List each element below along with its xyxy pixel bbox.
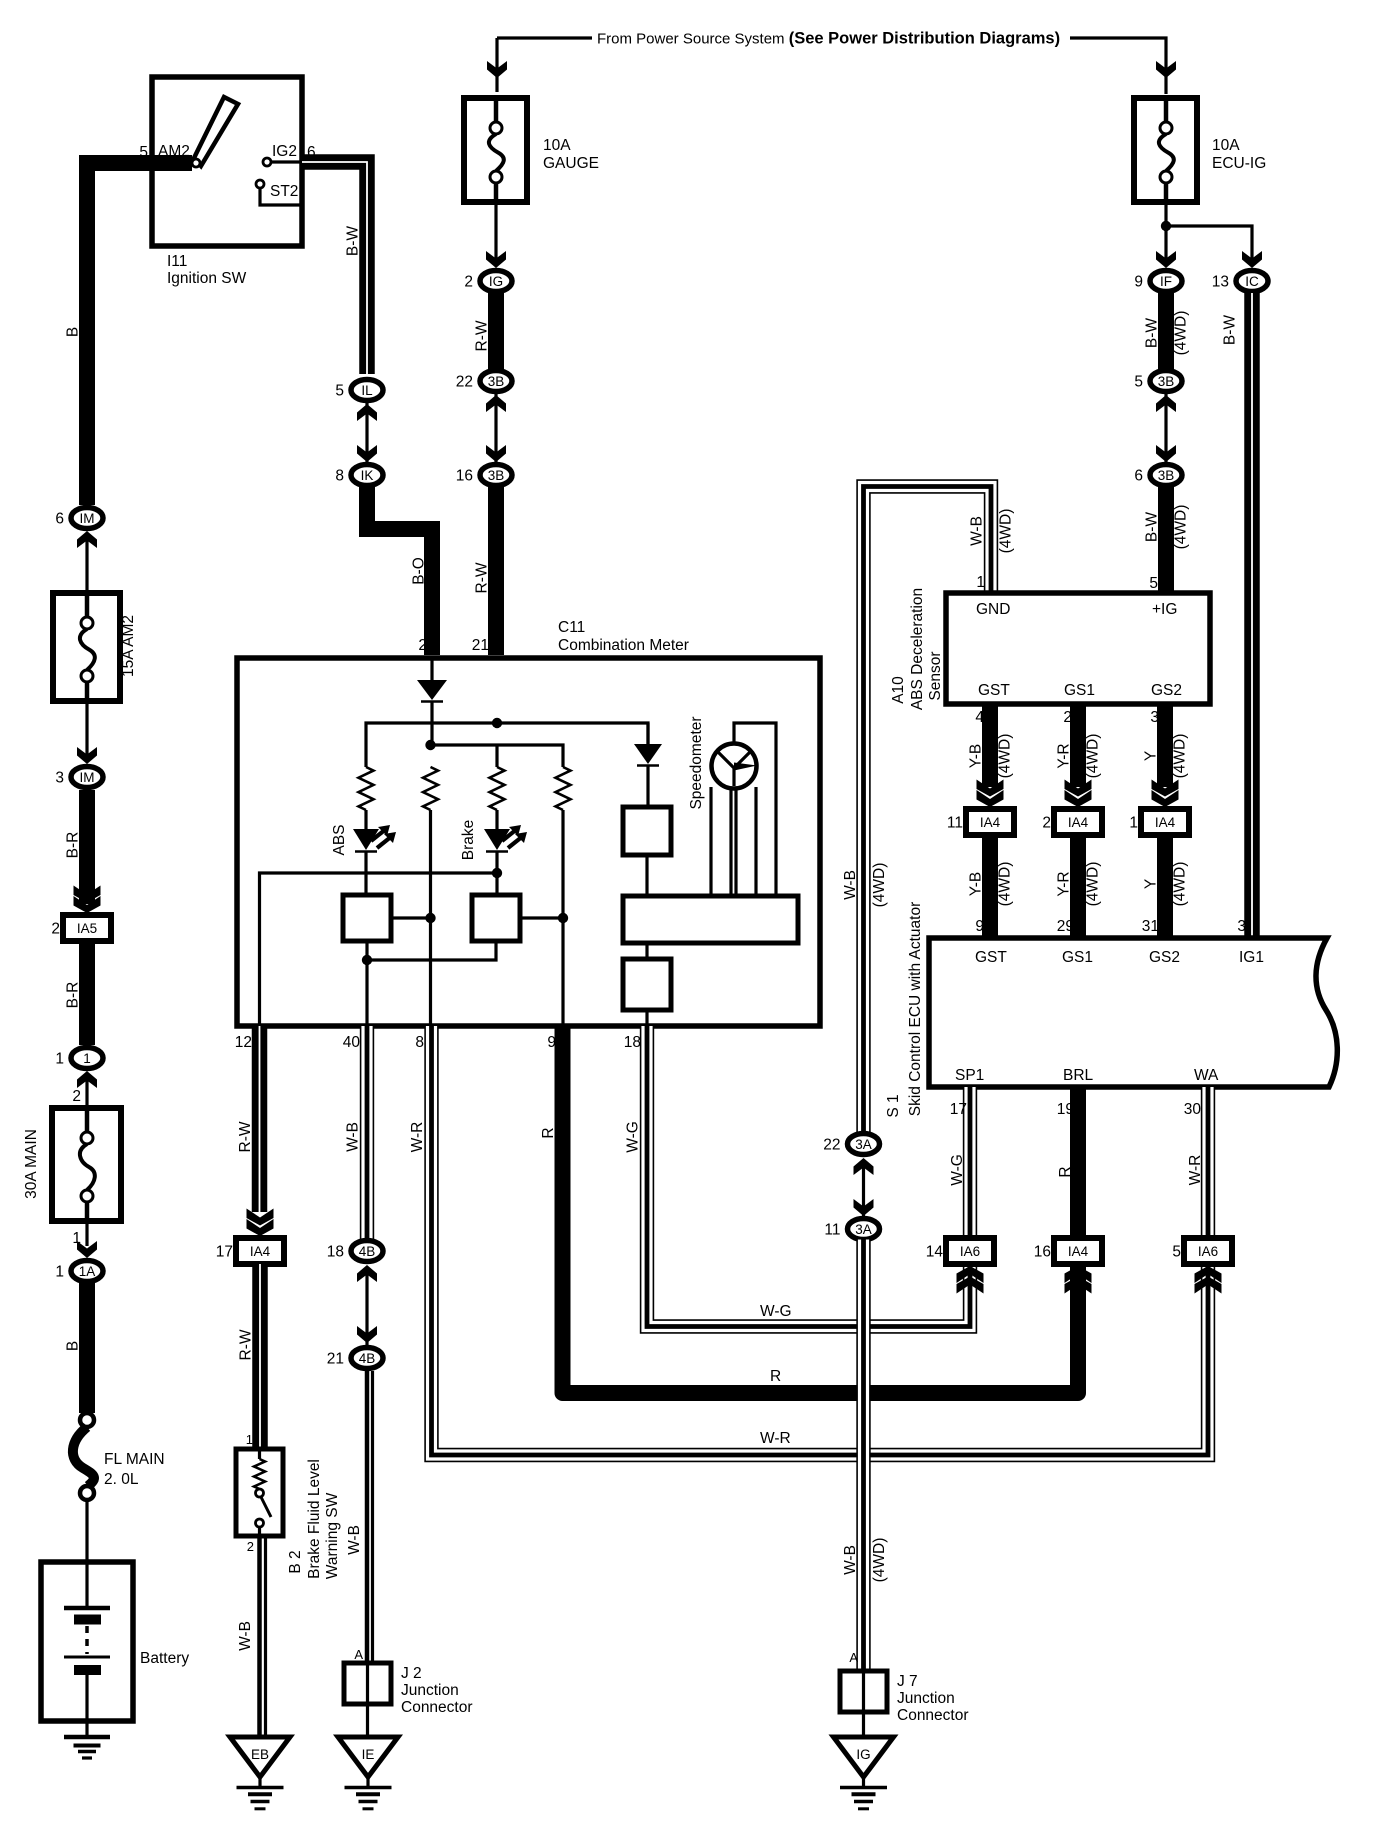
wire: 3A to 3A	[862, 1160, 865, 1216]
svg-text:B 2: B 2	[287, 1550, 304, 1573]
svg-text:BRL: BRL	[1063, 1067, 1094, 1084]
connector 11 3A	[848, 1219, 880, 1240]
svg-text:2: 2	[418, 637, 427, 654]
svg-text:W-B: W-B	[969, 516, 986, 546]
svg-text:4B: 4B	[359, 1244, 376, 1259]
svg-text:1A: 1A	[79, 1264, 96, 1279]
ignition switch I11 box	[152, 77, 302, 246]
resistor 4	[556, 767, 571, 810]
wire from pin 12 to brake lamp line	[260, 873, 498, 1026]
svg-text:2: 2	[247, 1539, 254, 1554]
svg-text:J 7: J 7	[897, 1673, 918, 1690]
wire: to 30A MAIN fuse	[85, 1074, 88, 1105]
wire Y-R (4WD): GS1 to IA4	[1070, 704, 1086, 787]
svg-text:B-O: B-O	[411, 557, 428, 585]
junction connector 5 IA6	[1184, 1238, 1232, 1264]
junction connector 14 IA6	[946, 1238, 994, 1264]
svg-text:3: 3	[1150, 709, 1159, 726]
battery	[41, 1562, 133, 1721]
svg-text:10A: 10A	[1212, 137, 1240, 154]
svg-text:IK: IK	[361, 468, 374, 483]
svg-text:W-G: W-G	[760, 1303, 792, 1320]
svg-text:R-W: R-W	[237, 1121, 254, 1152]
fuse 10A GAUGE	[464, 98, 527, 202]
meter internal wire from pin 2	[430, 658, 433, 680]
svg-text:2: 2	[464, 274, 473, 291]
ground below battery	[64, 1735, 110, 1740]
junction connector 16 IA4	[1054, 1238, 1102, 1264]
wire resistor4 down to pin 9	[561, 810, 564, 1026]
svg-text:From Power Source System (See: From Power Source System (See Power Dist…	[597, 30, 1060, 48]
svg-text:6: 6	[55, 511, 64, 528]
svg-text:1: 1	[976, 574, 985, 591]
amplifier box 1	[343, 895, 391, 941]
svg-text:4B: 4B	[359, 1351, 376, 1366]
connector 8 IK	[351, 465, 383, 486]
svg-text:B-W: B-W	[1144, 318, 1161, 349]
svg-text:GS1: GS1	[1062, 949, 1093, 966]
wire Y (4WD): IA4 to ECU GS2	[1157, 835, 1173, 938]
arrow into IA4	[1065, 1266, 1092, 1283]
fuse 15A AM2	[53, 593, 120, 701]
ABS deceleration sensor A10 box	[946, 593, 1210, 704]
svg-text:19: 19	[1057, 1101, 1074, 1118]
svg-text:IA4: IA4	[1068, 815, 1089, 830]
svg-text:IA6: IA6	[1198, 1244, 1218, 1259]
wire: from power source feed to ECU-IG fuse	[1070, 38, 1166, 94]
connector 5 3B	[1150, 371, 1182, 392]
svg-text:18: 18	[624, 1034, 641, 1051]
speedometer pickup wires	[709, 787, 712, 896]
amp1 output to pin 40	[365, 941, 368, 1026]
svg-text:IG: IG	[489, 274, 503, 289]
wire: ABS LED to amplifier	[364, 852, 367, 895]
svg-text:Y-R: Y-R	[1056, 743, 1073, 768]
svg-text:IE: IE	[362, 1747, 375, 1762]
svg-text:(4WD): (4WD)	[1172, 734, 1189, 779]
svg-text:(4WD): (4WD)	[1172, 862, 1189, 907]
svg-text:B: B	[65, 327, 82, 337]
svg-text:IM: IM	[80, 770, 95, 785]
arrow into 22 3A	[854, 1158, 874, 1175]
wire W-R: meter pin 8 to IA6 junction	[432, 1026, 1209, 1455]
svg-text:W-G: W-G	[625, 1121, 642, 1153]
svg-text:Y-B: Y-B	[968, 744, 985, 768]
svg-text:Junction: Junction	[897, 1690, 955, 1707]
svg-text:W-R: W-R	[1187, 1155, 1204, 1186]
svg-text:11: 11	[947, 815, 963, 832]
wire: IL to IK with arrows	[365, 401, 368, 466]
svg-text:IG1: IG1	[1239, 949, 1264, 966]
svg-text:IL: IL	[361, 383, 373, 398]
svg-text:WA: WA	[1194, 1067, 1219, 1084]
wire Y (4WD): GS2 to IA4	[1157, 704, 1173, 787]
svg-text:3: 3	[1237, 918, 1246, 935]
connector 16 3B	[480, 465, 512, 486]
speedometer feed diode	[646, 723, 649, 744]
svg-text:(4WD): (4WD)	[1085, 862, 1102, 907]
resistor for ABS lamp	[359, 767, 374, 810]
junction node	[1161, 221, 1171, 231]
svg-text:GND: GND	[976, 601, 1010, 618]
amp2 bottom link	[367, 941, 496, 960]
svg-text:Combination Meter: Combination Meter	[558, 637, 689, 654]
junction connector J7	[840, 1671, 887, 1712]
arrow into IA6	[1195, 1266, 1222, 1283]
svg-text:Brake: Brake	[460, 820, 477, 861]
svg-text:A: A	[354, 1647, 363, 1662]
svg-text:10A: 10A	[543, 137, 571, 154]
svg-text:SP1: SP1	[955, 1067, 984, 1084]
arrow into IA4	[1152, 790, 1179, 807]
svg-text:GST: GST	[978, 682, 1010, 699]
svg-text:13: 13	[1212, 274, 1229, 291]
arrow into IA4	[1065, 790, 1092, 807]
svg-text:Warning SW: Warning SW	[324, 1492, 341, 1579]
wire B-R: IM to IA5	[79, 790, 95, 904]
svg-text:W-B: W-B	[346, 1525, 363, 1555]
svg-text:40: 40	[343, 1034, 361, 1051]
arrow into 17 IA4	[247, 1219, 274, 1236]
svg-text:8: 8	[335, 468, 344, 485]
svg-text:1: 1	[1129, 815, 1138, 832]
ground EB	[230, 1737, 290, 1777]
connector 21 4B	[351, 1348, 383, 1369]
brake fluid level warning switch B2	[236, 1449, 283, 1536]
svg-text:Speedometer: Speedometer	[688, 716, 705, 809]
svg-text:B: B	[65, 1341, 82, 1351]
svg-text:Ignition SW: Ignition SW	[167, 270, 247, 287]
svg-text:IA4: IA4	[250, 1244, 271, 1259]
svg-text:R-W: R-W	[238, 1329, 255, 1360]
svg-text:5: 5	[1134, 374, 1143, 391]
svg-text:IG: IG	[856, 1747, 870, 1762]
svg-text:2: 2	[1042, 815, 1051, 832]
connector 9 IF	[1150, 271, 1182, 292]
fuse 10A ECU-IG	[1134, 98, 1197, 202]
speedometer top wire	[734, 723, 776, 896]
wire: fuse to IF and IC	[1164, 202, 1167, 266]
ground IE	[338, 1737, 398, 1777]
svg-text:IM: IM	[80, 511, 95, 526]
svg-text:IG2: IG2	[272, 143, 297, 160]
wire: IM to fuse 15A AM2	[85, 534, 88, 590]
wire: brake LED to amplifier 2	[495, 852, 498, 895]
wire R-W: 3B to combination meter pin 21	[488, 487, 504, 655]
svg-text:1: 1	[246, 1432, 253, 1447]
node amp outputs	[362, 955, 372, 965]
wire W-B: 4B to junction connector J2	[365, 1371, 370, 1663]
connector 1 (oval)	[71, 1048, 103, 1069]
svg-text:3A: 3A	[855, 1137, 872, 1152]
svg-text:(4WD): (4WD)	[997, 734, 1014, 779]
wire B-O: IK to meter pin 2	[367, 487, 432, 655]
svg-text:Junction: Junction	[401, 1682, 459, 1699]
svg-text:ST2: ST2	[270, 183, 298, 200]
wire B: AM2 to connector IM	[87, 163, 192, 505]
wire W-B: switch to ground EB	[257, 1536, 262, 1736]
svg-text:ECU-IG: ECU-IG	[1212, 155, 1266, 172]
svg-text:R: R	[540, 1127, 557, 1138]
wire B: 1A to fusible link	[79, 1283, 95, 1413]
svg-text:3B: 3B	[488, 374, 505, 389]
svg-text:B-R: B-R	[65, 832, 82, 859]
svg-text:(4WD): (4WD)	[871, 1538, 888, 1583]
junction connector 2 IA5	[63, 915, 111, 941]
svg-text:EB: EB	[251, 1747, 269, 1762]
arrow into IC	[1242, 251, 1262, 268]
svg-text:GST: GST	[975, 949, 1007, 966]
connector 6 IM	[71, 508, 103, 529]
svg-text:IA4: IA4	[980, 815, 1001, 830]
svg-text:2. 0L: 2. 0L	[104, 1471, 139, 1488]
svg-text:17: 17	[950, 1101, 967, 1118]
svg-text:3B: 3B	[488, 468, 505, 483]
wire B-W: IG2 to connector IL	[271, 160, 302, 163]
wire Y-B (4WD): IA4 to ECU GST	[982, 835, 998, 938]
arrow into IG	[486, 251, 506, 268]
terminal ST2	[256, 180, 264, 188]
svg-text:W-R: W-R	[409, 1122, 426, 1153]
amplifier box 2	[472, 895, 520, 941]
connector 18 4B	[351, 1241, 383, 1262]
connector 6 3B	[1150, 465, 1182, 486]
wire R-W: IG to 3B	[488, 293, 504, 369]
wire R-W: IA4 to brake fluid switch	[252, 1264, 268, 1449]
wire W-G: meter pin 18 to IA6 junction	[647, 1026, 970, 1327]
svg-text:A: A	[849, 1650, 858, 1665]
svg-text:3: 3	[55, 770, 64, 787]
wire Y-R (4WD): IA4 to ECU GS1	[1070, 835, 1086, 938]
wire B-R: IA5 to connector 1	[79, 941, 95, 1045]
wire: from power source feed to GAUGE fuse	[497, 36, 592, 39]
arrow into IA5	[74, 896, 101, 913]
wire resistor2 down to pin 8	[429, 810, 432, 1026]
wire W-B (4WD): A10 GND loop to 3A connector	[864, 487, 992, 1134]
arrow into 18 4B	[357, 1265, 377, 1282]
svg-text:Skid Control ECU with Actuator: Skid Control ECU with Actuator	[907, 902, 924, 1117]
wire W-B (4WD): 3A to junction connector J7	[856, 1240, 870, 1672]
svg-text:9: 9	[1134, 274, 1143, 291]
wire resistor to brake LED	[495, 745, 498, 767]
junction connector 17 IA4	[236, 1238, 284, 1264]
svg-text:16: 16	[456, 468, 473, 485]
amp2 side link	[520, 916, 563, 919]
fusible link FL MAIN 2.0L	[80, 1413, 94, 1427]
internal bus wire 2	[431, 745, 564, 767]
svg-text:I11: I11	[167, 253, 187, 270]
svg-text:(4WD): (4WD)	[1085, 734, 1102, 779]
wire B-W: IC to skid control ECU IG1 pin 3	[1244, 293, 1260, 938]
combination meter C11 box	[237, 658, 820, 1026]
wire B-W (4WD): 3B to A10 +IG pin 5	[1158, 487, 1174, 593]
svg-text:31: 31	[1142, 918, 1159, 935]
arrow into IM	[77, 531, 97, 548]
svg-text:IF: IF	[1160, 274, 1172, 289]
svg-text:(4WD): (4WD)	[997, 862, 1014, 907]
svg-text:W-B: W-B	[237, 1621, 254, 1651]
svg-text:21: 21	[327, 1351, 344, 1368]
amp1 side link	[391, 916, 431, 919]
wire from ST2 terminal	[260, 188, 302, 205]
svg-text:GAUGE: GAUGE	[543, 155, 599, 172]
svg-text:GS2: GS2	[1149, 949, 1180, 966]
arrow into IF	[1156, 251, 1176, 268]
wire R: ECU BRL to IA4	[1070, 1087, 1086, 1241]
terminal IG2	[263, 158, 271, 166]
skid control ECU S1 box	[929, 938, 1337, 1087]
terminal AM2	[192, 159, 200, 167]
svg-text:(4WD): (4WD)	[1173, 505, 1190, 550]
svg-text:21: 21	[472, 637, 489, 654]
svg-text:R-W: R-W	[474, 320, 491, 351]
wire: 3B to 3B with arrows	[494, 392, 497, 466]
svg-text:S 1: S 1	[885, 1094, 902, 1117]
svg-text:5: 5	[1172, 1244, 1181, 1261]
resistor 2	[423, 767, 438, 810]
svg-text:R: R	[770, 1368, 781, 1385]
wire Y-B (4WD): GST to IA4	[982, 704, 998, 787]
brake warning LED	[484, 829, 510, 850]
svg-text:GS2: GS2	[1151, 682, 1182, 699]
svg-text:1: 1	[55, 1264, 64, 1281]
wire W-B: meter pin 40 to 4B	[360, 1026, 374, 1243]
connector 3 IM	[71, 767, 103, 788]
svg-text:8: 8	[415, 1034, 424, 1051]
svg-text:14: 14	[926, 1244, 944, 1261]
svg-text:J 2: J 2	[401, 1665, 422, 1682]
svg-text:B-W: B-W	[1222, 315, 1239, 346]
wire: fuse to 1A	[85, 1221, 88, 1246]
arrow into GAUGE fuse	[487, 61, 507, 78]
svg-text:4: 4	[975, 709, 984, 726]
svg-text:R: R	[1057, 1166, 1074, 1177]
wire: fusible link to battery	[85, 1500, 88, 1562]
svg-text:3B: 3B	[1158, 374, 1175, 389]
wire resistor to ABS LED	[364, 810, 367, 829]
junction connector 11 IA4	[966, 809, 1014, 835]
node on bus 2	[425, 740, 435, 750]
wire B-W (4WD): IF to 3B	[1158, 293, 1174, 369]
svg-text:GS1: GS1	[1064, 682, 1095, 699]
svg-text:29: 29	[1057, 918, 1074, 935]
node brake line	[492, 868, 502, 878]
svg-text:W-G: W-G	[949, 1154, 966, 1186]
svg-text:22: 22	[456, 374, 473, 391]
svg-text:+IG: +IG	[1152, 601, 1177, 618]
wire R-W: meter pin 12 to IA4	[252, 1026, 268, 1212]
svg-text:IA5: IA5	[77, 921, 97, 936]
svg-text:Brake Fluid Level: Brake Fluid Level	[306, 1459, 323, 1579]
svg-text:18: 18	[327, 1244, 344, 1261]
svg-text:R-W: R-W	[474, 562, 491, 593]
svg-text:W-B: W-B	[345, 1122, 362, 1152]
svg-text:W-R: W-R	[760, 1430, 791, 1447]
svg-text:5: 5	[1149, 575, 1158, 592]
svg-text:A10: A10	[890, 676, 907, 704]
wire: fuse to connector IM	[85, 701, 88, 762]
svg-text:W-B: W-B	[842, 1545, 859, 1575]
arrow into ECU-IG fuse	[1156, 61, 1176, 78]
connector 22 3A	[848, 1134, 880, 1155]
svg-text:B-R: B-R	[65, 982, 82, 1009]
arrow into IA6	[957, 1266, 984, 1283]
resistor for brake lamp	[490, 767, 505, 810]
svg-text:Connector: Connector	[897, 1707, 969, 1724]
fuse 30A MAIN	[52, 1108, 121, 1221]
svg-text:1: 1	[83, 1051, 91, 1066]
svg-text:(4WD): (4WD)	[998, 509, 1015, 554]
connector 5 IL	[351, 380, 383, 401]
svg-text:C11: C11	[558, 619, 585, 636]
arrow into IA4	[977, 790, 1004, 807]
connector 22 3B	[480, 371, 512, 392]
svg-text:B-W: B-W	[1144, 512, 1161, 543]
junction connector 2 IA4	[1054, 809, 1102, 835]
svg-text:2: 2	[51, 921, 60, 938]
svg-text:2: 2	[72, 1088, 81, 1105]
ABS warning LED	[353, 829, 379, 850]
speedo box upper	[623, 807, 671, 855]
svg-text:Y-B: Y-B	[968, 872, 985, 896]
connector 13 IC	[1236, 271, 1268, 292]
wire W-G: ECU SP1 to IA6	[963, 1087, 977, 1241]
svg-text:5: 5	[335, 383, 344, 400]
wire R: meter pin 9 to IA4 junction	[563, 1026, 1079, 1393]
svg-text:Y: Y	[1143, 879, 1160, 889]
connector 2 IG	[480, 271, 512, 292]
wire: 3B to 3B with arrows	[1164, 392, 1167, 466]
ground IG	[834, 1737, 894, 1777]
svg-text:ABS Deceleration: ABS Deceleration	[909, 588, 926, 710]
svg-text:(4WD): (4WD)	[871, 863, 888, 908]
svg-text:6: 6	[1134, 468, 1143, 485]
svg-text:Y: Y	[1143, 751, 1160, 761]
connector 1 1A	[71, 1261, 103, 1282]
svg-text:(4WD): (4WD)	[1173, 311, 1190, 356]
wire: GAUGE fuse to connector IG	[494, 202, 497, 266]
svg-text:1: 1	[55, 1051, 64, 1068]
speedo box lower	[623, 959, 671, 1010]
wire: 4B to 4B	[365, 1267, 368, 1346]
arrow into connector 1	[77, 1071, 97, 1088]
svg-text:IA4: IA4	[1068, 1244, 1089, 1259]
svg-text:Battery: Battery	[140, 1650, 189, 1667]
svg-text:3A: 3A	[855, 1222, 872, 1237]
svg-text:W-B: W-B	[842, 870, 859, 900]
svg-text:Connector: Connector	[401, 1699, 473, 1716]
svg-text:22: 22	[823, 1137, 840, 1154]
internal bus wire 1	[366, 723, 648, 767]
speedometer icon	[712, 744, 757, 789]
svg-text:12: 12	[235, 1034, 252, 1051]
junction connector 1 IA4	[1141, 809, 1189, 835]
svg-text:IA6: IA6	[960, 1244, 980, 1259]
svg-text:15A AM2: 15A AM2	[120, 615, 137, 677]
svg-text:11: 11	[824, 1222, 840, 1239]
svg-text:B-W: B-W	[345, 226, 362, 257]
svg-text:3B: 3B	[1158, 468, 1175, 483]
svg-text:IC: IC	[1245, 274, 1259, 289]
svg-text:FL MAIN: FL MAIN	[104, 1451, 165, 1468]
junction connector J2	[344, 1663, 391, 1704]
node on bus 1	[492, 718, 502, 728]
svg-text:30: 30	[1184, 1101, 1202, 1118]
svg-text:Y-R: Y-R	[1056, 871, 1073, 896]
svg-text:ABS: ABS	[331, 824, 348, 855]
svg-text:IA4: IA4	[1155, 815, 1176, 830]
speedo long box	[623, 896, 798, 943]
